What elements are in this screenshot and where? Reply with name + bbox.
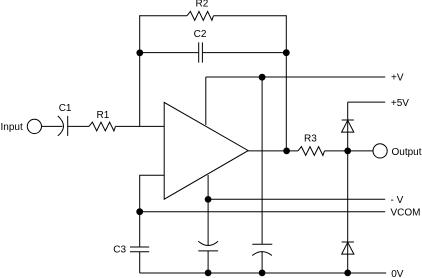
capacitor C3 [130, 247, 149, 252]
diode D1 (+5V clamp) [342, 120, 354, 132]
svg-text:Input: Input [1, 122, 23, 133]
capacitor C5 (polarized, +V decoupling, curved plate down) [252, 244, 272, 255]
svg-text:C1: C1 [59, 103, 72, 114]
input port circle [27, 119, 41, 133]
wire C4 to 0V rail [207, 251, 209, 273]
svg-text:C2: C2 [194, 29, 207, 40]
wire feedback left vertical [139, 15, 141, 126]
wire +5V rail [348, 101, 386, 103]
wire -V rail [208, 198, 385, 200]
svg-text:R3: R3 [304, 134, 317, 145]
svg-text:- V: - V [391, 195, 404, 206]
wire C2 right [202, 52, 286, 54]
output port circle [373, 144, 387, 158]
node: C4 / 0V junction [205, 270, 212, 277]
svg-text:+5V: +5V [391, 98, 409, 109]
wire +V decoupling vertical [261, 77, 263, 244]
svg-text:VCOM: VCOM [391, 207, 421, 218]
resistor R1 [89, 122, 116, 131]
wire C5 to 0V rail [261, 252, 263, 273]
node: output / diode clamp junction [344, 148, 351, 155]
svg-text:R1: R1 [97, 110, 110, 121]
resistor R3 [298, 147, 325, 156]
diode D2 (0V clamp) [342, 242, 354, 254]
wire op-amp V- supply pin down to C4 [207, 175, 209, 245]
wire R1 to op-amp inverting input [116, 125, 165, 127]
svg-text:+V: +V [391, 73, 404, 84]
wire input to C1 [42, 125, 63, 127]
wire VCOM dot down to C3 [139, 212, 141, 247]
node: C2 left junction [136, 49, 143, 56]
svg-text:0V: 0V [391, 269, 404, 278]
wire op-amp V+ supply pin [205, 77, 207, 125]
capacitor C4 (polarized, -V decoupling, curved plate up) [198, 241, 218, 251]
node: -V rail junction [205, 196, 212, 203]
wire op-amp output to R3 [248, 150, 298, 152]
wire C1 to R1 [68, 125, 89, 127]
svg-text:C3: C3 [113, 245, 126, 256]
wire op-amp non-inverting input to VCOM [140, 175, 165, 212]
node: feedback / output junction [283, 148, 290, 155]
resistor R2 [187, 11, 214, 20]
op-amp U1 triangle [164, 102, 248, 199]
capacitor C1 (polarized, curved plate left) [58, 116, 68, 136]
wire diode clamp branch vertical [347, 102, 349, 273]
wire +V rail [206, 76, 385, 78]
node: VCOM rail / C3 junction [136, 208, 143, 215]
wire feedback right vertical [285, 15, 287, 151]
wire C3 to 0V rail [139, 252, 141, 273]
node: C2 right junction [283, 49, 290, 56]
wire C2 left [140, 52, 199, 54]
wire feedback top left segment [140, 15, 187, 17]
wire feedback top right segment [214, 15, 287, 17]
wire 0V rail [140, 272, 387, 274]
svg-text:Output: Output [392, 147, 422, 158]
wire R3 to output node [325, 150, 348, 152]
node: C5 / 0V junction [259, 270, 266, 277]
node: diode clamp / 0V junction [344, 270, 351, 277]
node: +V rail / C5 junction [259, 74, 266, 81]
wire output node to output port [348, 150, 373, 152]
svg-text:R2: R2 [196, 0, 209, 10]
wire VCOM rail [140, 211, 386, 213]
capacitor C2 [199, 42, 203, 62]
